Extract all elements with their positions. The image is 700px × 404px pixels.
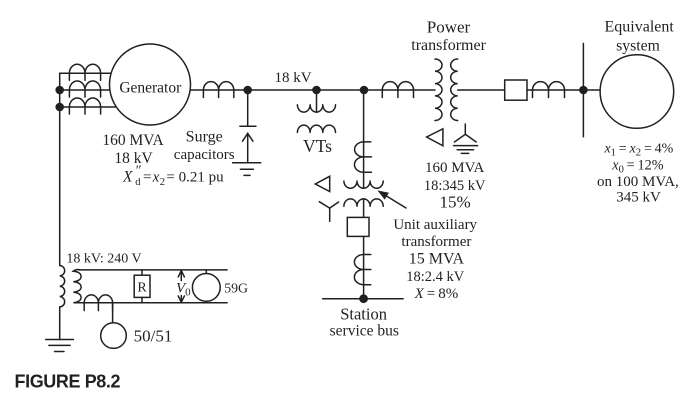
svg-text:service bus: service bus <box>330 323 399 340</box>
node junction dot upper left <box>55 86 64 95</box>
ground below surge capacitor <box>233 163 261 176</box>
wire secondary top line <box>79 269 227 271</box>
generator G1 circle <box>110 44 191 125</box>
delta winding symbol power transformer <box>427 129 443 146</box>
svg-text:X = 8%: X = 8% <box>414 286 459 302</box>
svg-text:Station: Station <box>340 305 387 324</box>
345 kV bus vertical line <box>582 43 584 136</box>
breaker CB1 square <box>505 80 527 100</box>
CT on top generator stub <box>69 64 100 80</box>
relay 50/51 circle <box>101 323 127 349</box>
CT on bottom generator stub <box>69 98 100 114</box>
svg-text:18:2.4 kV: 18:2.4 kV <box>406 269 465 285</box>
resistor R box <box>134 270 150 303</box>
svg-text:transformer: transformer <box>401 234 471 250</box>
node junction dot VT tap <box>312 86 321 95</box>
wire from power transformer to breaker <box>458 89 505 91</box>
wire unit auxiliary branch down lower <box>363 199 365 299</box>
delta winding symbol unit auxiliary <box>315 176 329 191</box>
svg-text:50/51: 50/51 <box>134 326 173 345</box>
wire generator phase stub middle <box>60 89 111 91</box>
svg-text:18 kV: 240 V: 18 kV: 240 V <box>66 252 141 267</box>
relay 59G circle <box>192 270 220 303</box>
power transformer T1 windings <box>435 59 458 121</box>
V0 measurement arrows <box>178 271 184 303</box>
wire generator phase stub top <box>60 72 112 74</box>
CT on middle generator stub <box>69 81 100 97</box>
svg-text:18 kV: 18 kV <box>114 150 153 167</box>
svg-text:15%: 15% <box>440 192 471 211</box>
svg-text:345 kV: 345 kV <box>616 190 661 206</box>
node junction dot 345 kV bus <box>579 86 588 95</box>
svg-text:15 MVA: 15 MVA <box>409 250 465 267</box>
CT on generator output <box>203 82 233 98</box>
breaker CB2 square unit auxiliary <box>347 217 369 236</box>
svg-text:Power: Power <box>427 17 471 36</box>
node junction dot station service bus <box>359 294 368 303</box>
VT voltage transformer branch <box>297 90 335 132</box>
wire unit auxiliary branch down upper <box>363 90 365 188</box>
equivalent system S circle <box>600 55 674 129</box>
unit auxiliary transformer T2 secondary winding <box>344 199 383 206</box>
svg-text:FIGURE P8.2: FIGURE P8.2 <box>15 372 121 392</box>
node junction dot surge capacitor tap <box>243 86 252 95</box>
arrow pointer to unit auxiliary transformer <box>377 190 406 208</box>
svg-text:160 MVA: 160 MVA <box>425 160 484 176</box>
wye symbol unit auxiliary <box>319 202 338 222</box>
wire generator phase stub bottom <box>60 106 117 108</box>
CT on high side <box>533 82 565 98</box>
wire left vertical bus upper <box>59 73 61 265</box>
svg-text:R: R <box>137 280 147 295</box>
reactor winding on station service feed <box>354 255 370 285</box>
ground symbol bottom left <box>46 340 74 352</box>
wire from breaker to system bus <box>527 89 583 91</box>
svg-text:transformer: transformer <box>411 37 486 54</box>
svg-text:capacitors: capacitors <box>174 147 235 163</box>
wire CT to relay 50/51 <box>112 303 114 323</box>
station service bus line <box>323 298 403 300</box>
wire 18 kV bus from generator to power transformer <box>190 89 435 91</box>
wire left vertical bus lower <box>59 307 61 340</box>
surge capacitor C1 branch <box>240 90 256 163</box>
svg-text:VTs: VTs <box>303 136 332 156</box>
svg-text:Equivalent: Equivalent <box>605 19 675 36</box>
svg-text:Generator: Generator <box>119 79 182 96</box>
wire bus to equivalent system <box>583 89 600 91</box>
CT on grounding transformer secondary <box>84 295 112 311</box>
svg-text:59G: 59G <box>224 280 248 295</box>
grounding transformer 18 kV : 240 V primary winding <box>60 266 65 307</box>
svg-text:18 kV: 18 kV <box>274 70 311 86</box>
node junction dot lower left <box>55 103 64 112</box>
grounded wye symbol power transformer <box>454 124 478 153</box>
CT on power transformer primary <box>382 82 413 98</box>
node junction dot unit auxiliary tap <box>360 86 369 95</box>
wire secondary bottom line <box>79 302 227 304</box>
svg-text:on 100 MVA,: on 100 MVA, <box>597 174 679 190</box>
svg-text:160 MVA: 160 MVA <box>102 132 164 149</box>
svg-text:Unit auxiliary: Unit auxiliary <box>393 217 477 233</box>
svg-text:system: system <box>616 37 660 54</box>
grounding transformer secondary winding <box>73 270 81 303</box>
svg-text:Surge: Surge <box>186 129 223 146</box>
unit auxiliary transformer T2 primary winding <box>344 142 383 188</box>
